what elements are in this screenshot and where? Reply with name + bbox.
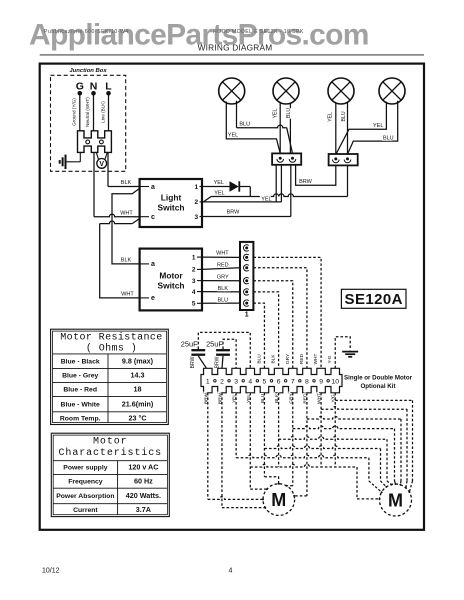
svg-text:Blue - Black: Blue - Black bbox=[61, 358, 100, 365]
svg-text:Junction Box: Junction Box bbox=[69, 68, 107, 74]
svg-text:120 v AC: 120 v AC bbox=[128, 463, 158, 472]
svg-text:YEL: YEL bbox=[273, 108, 279, 118]
svg-text:BLK: BLK bbox=[271, 354, 277, 364]
svg-text:4: 4 bbox=[229, 568, 233, 575]
svg-text:25uF: 25uF bbox=[181, 340, 198, 349]
svg-text:BLU: BLU bbox=[217, 297, 228, 303]
svg-text:Line (BLK): Line (BLK) bbox=[100, 101, 105, 123]
svg-text:GRY: GRY bbox=[217, 274, 229, 280]
svg-text:4: 4 bbox=[248, 379, 252, 386]
svg-text:Light: Light bbox=[161, 192, 182, 202]
svg-text:4: 4 bbox=[192, 289, 196, 296]
svg-text:( Ohms ): ( Ohms ) bbox=[86, 343, 137, 355]
svg-text:6: 6 bbox=[277, 379, 281, 386]
svg-text:1: 1 bbox=[194, 184, 198, 191]
svg-text:Motor Resistance: Motor Resistance bbox=[60, 332, 162, 344]
svg-text:BLK: BLK bbox=[121, 257, 132, 263]
svg-text:9.8 (max): 9.8 (max) bbox=[122, 356, 154, 365]
svg-text:Switch: Switch bbox=[158, 280, 185, 290]
svg-text:GRY: GRY bbox=[285, 353, 291, 364]
svg-text:WHT: WHT bbox=[120, 210, 133, 216]
svg-text:Ground (Y/G): Ground (Y/G) bbox=[71, 98, 76, 126]
svg-text:Power supply: Power supply bbox=[63, 465, 107, 472]
svg-text:RED: RED bbox=[299, 353, 305, 364]
svg-text:BLU: BLU bbox=[286, 108, 292, 118]
svg-text:WHT: WHT bbox=[121, 291, 134, 297]
svg-text:21.6(min): 21.6(min) bbox=[122, 399, 154, 408]
svg-text:V: V bbox=[99, 161, 104, 168]
svg-text:3.7A: 3.7A bbox=[136, 505, 151, 514]
svg-text:BRW: BRW bbox=[227, 210, 241, 216]
svg-text:420 Watts.: 420 Watts. bbox=[126, 491, 161, 500]
svg-text:Single or Double Motor: Single or Double Motor bbox=[344, 375, 413, 382]
svg-text:BLU: BLU bbox=[256, 354, 262, 364]
svg-text:1: 1 bbox=[206, 379, 210, 386]
svg-text:YEL: YEL bbox=[328, 112, 334, 122]
svg-text:23 °C: 23 °C bbox=[128, 413, 146, 422]
svg-text:Optional Kit: Optional Kit bbox=[360, 383, 395, 390]
svg-text:Power Absorption: Power Absorption bbox=[56, 493, 114, 500]
svg-text:Blue - Grey: Blue - Grey bbox=[62, 373, 98, 380]
svg-text:N: N bbox=[90, 80, 98, 92]
svg-text:M: M bbox=[271, 490, 286, 510]
svg-text:BLU: BLU bbox=[341, 111, 347, 121]
svg-text:2: 2 bbox=[194, 199, 198, 206]
svg-text:Room Temp.: Room Temp. bbox=[60, 415, 101, 422]
svg-text:1: 1 bbox=[192, 254, 196, 261]
svg-text:a: a bbox=[151, 184, 155, 191]
svg-text:3: 3 bbox=[192, 278, 196, 285]
svg-text:YEL: YEL bbox=[214, 180, 224, 186]
svg-text:8: 8 bbox=[305, 379, 309, 386]
svg-text:3: 3 bbox=[194, 214, 198, 221]
svg-text:BRW: BRW bbox=[215, 356, 221, 368]
svg-text:60 Hz: 60 Hz bbox=[134, 477, 153, 486]
svg-text:Characteristics: Characteristics bbox=[59, 447, 163, 459]
svg-text:e: e bbox=[151, 295, 155, 302]
svg-text:Current: Current bbox=[73, 507, 98, 514]
svg-text:a: a bbox=[151, 261, 155, 268]
svg-text:1: 1 bbox=[245, 311, 249, 318]
svg-text:AppliancePartsPros.com: AppliancePartsPros.com bbox=[29, 19, 369, 52]
svg-text:Switch: Switch bbox=[158, 202, 185, 212]
svg-text:YEL: YEL bbox=[373, 123, 383, 129]
svg-text:2: 2 bbox=[220, 379, 224, 386]
svg-text:BLU: BLU bbox=[239, 121, 250, 127]
svg-text:5: 5 bbox=[263, 379, 267, 386]
svg-text:BRW: BRW bbox=[299, 179, 313, 185]
svg-text:G: G bbox=[76, 80, 84, 92]
svg-text:2: 2 bbox=[192, 267, 196, 274]
svg-text:YEL: YEL bbox=[228, 133, 238, 139]
svg-text:Motor: Motor bbox=[159, 270, 183, 280]
svg-text:5: 5 bbox=[192, 301, 196, 308]
svg-text:M: M bbox=[388, 490, 403, 510]
svg-text:BLK: BLK bbox=[218, 286, 229, 292]
svg-text:WHT: WHT bbox=[216, 251, 229, 257]
svg-text:10: 10 bbox=[331, 379, 339, 386]
svg-text:BLU: BLU bbox=[383, 135, 394, 141]
svg-text:14.3: 14.3 bbox=[131, 371, 145, 380]
svg-text:18: 18 bbox=[134, 385, 142, 394]
svg-text:25uF: 25uF bbox=[206, 340, 223, 349]
svg-text:9: 9 bbox=[319, 379, 323, 386]
svg-text:Neutral (WHT): Neutral (WHT) bbox=[85, 97, 90, 127]
svg-text:YEL: YEL bbox=[214, 190, 224, 196]
svg-text:Blue - White: Blue - White bbox=[61, 401, 100, 408]
svg-text:Y-G: Y-G bbox=[327, 355, 333, 363]
svg-text:BRW: BRW bbox=[190, 356, 196, 368]
svg-text:WHT: WHT bbox=[313, 353, 319, 364]
svg-text:SE120A: SE120A bbox=[345, 291, 403, 308]
svg-text:Frequency: Frequency bbox=[68, 479, 103, 486]
svg-text:BLK: BLK bbox=[121, 180, 132, 186]
svg-text:Blue - Red: Blue - Red bbox=[63, 387, 97, 394]
svg-text:3: 3 bbox=[234, 379, 238, 386]
svg-text:10/12: 10/12 bbox=[42, 568, 60, 575]
svg-text:RED: RED bbox=[217, 263, 229, 269]
svg-text:7: 7 bbox=[291, 379, 295, 386]
svg-text:L: L bbox=[105, 80, 112, 92]
svg-text:Motor: Motor bbox=[93, 437, 128, 448]
svg-text:c: c bbox=[151, 214, 155, 221]
